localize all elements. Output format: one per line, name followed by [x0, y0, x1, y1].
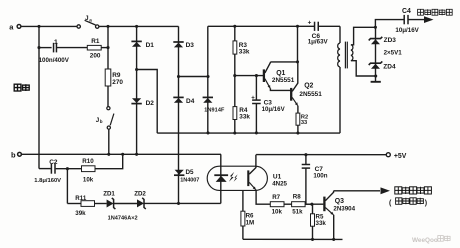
svg-text:100n/400V: 100n/400V — [39, 57, 70, 64]
svg-text:WeeQoo: WeeQoo — [412, 237, 438, 244]
svg-text:b: b — [11, 150, 16, 159]
svg-text:1N914F: 1N914F — [204, 108, 225, 114]
svg-text:33: 33 — [301, 120, 307, 126]
svg-text:200: 200 — [90, 53, 101, 60]
svg-text:39k: 39k — [75, 210, 86, 217]
svg-text:51k: 51k — [292, 208, 303, 215]
svg-text:33k: 33k — [239, 113, 250, 120]
svg-text:ZD1: ZD1 — [103, 191, 115, 198]
svg-text:1M: 1M — [246, 220, 255, 227]
svg-text:2N5551: 2N5551 — [272, 77, 295, 84]
svg-text:33k: 33k — [239, 48, 250, 55]
svg-text:D3: D3 — [186, 42, 195, 49]
svg-text:Q3: Q3 — [335, 198, 344, 205]
svg-text:10k: 10k — [272, 208, 283, 215]
svg-text:R9: R9 — [112, 72, 121, 79]
svg-text:+5V: +5V — [394, 153, 407, 160]
svg-text:R7: R7 — [272, 194, 280, 201]
svg-text:1: 1 — [54, 39, 58, 46]
svg-text:10μ/16V: 10μ/16V — [262, 106, 286, 113]
svg-text:2N3904: 2N3904 — [333, 205, 355, 212]
svg-text:a: a — [89, 17, 92, 22]
svg-text:D4: D4 — [186, 98, 195, 105]
svg-text:1μ/63V: 1μ/63V — [308, 38, 329, 45]
svg-text:ZD2: ZD2 — [134, 191, 146, 198]
svg-text:+: + — [251, 95, 255, 101]
svg-text:R6: R6 — [246, 213, 254, 220]
svg-text:C2: C2 — [49, 159, 58, 166]
svg-text:R8: R8 — [293, 194, 301, 201]
svg-text:D2: D2 — [146, 100, 155, 107]
svg-text:C4: C4 — [402, 8, 411, 15]
svg-text:10μ/16V: 10μ/16V — [395, 27, 419, 34]
svg-text:ZD4: ZD4 — [383, 64, 396, 71]
svg-text:U1: U1 — [273, 173, 282, 180]
svg-text:1N4007: 1N4007 — [180, 177, 199, 183]
svg-text:R10: R10 — [82, 158, 94, 165]
svg-text:1.8μ/160V: 1.8μ/160V — [34, 178, 61, 184]
svg-text:D1: D1 — [146, 42, 155, 49]
svg-text:+: + — [308, 20, 312, 27]
svg-text:2×5V1: 2×5V1 — [384, 49, 403, 56]
svg-text:R11: R11 — [75, 195, 87, 202]
svg-text:ZD3: ZD3 — [384, 37, 397, 44]
svg-text:R1: R1 — [91, 38, 100, 45]
svg-text:b: b — [100, 119, 103, 124]
svg-text:D5: D5 — [186, 169, 195, 176]
svg-text:4N25: 4N25 — [272, 180, 287, 187]
svg-text:2N5551: 2N5551 — [299, 91, 322, 98]
svg-text:33k: 33k — [316, 220, 327, 227]
svg-text:): ) — [425, 200, 427, 207]
svg-text:100n: 100n — [313, 173, 327, 180]
svg-text:270: 270 — [112, 79, 123, 86]
svg-text:10k: 10k — [83, 176, 94, 183]
svg-text:1N4746A×2: 1N4746A×2 — [108, 216, 138, 222]
svg-text:Q2: Q2 — [304, 82, 313, 89]
